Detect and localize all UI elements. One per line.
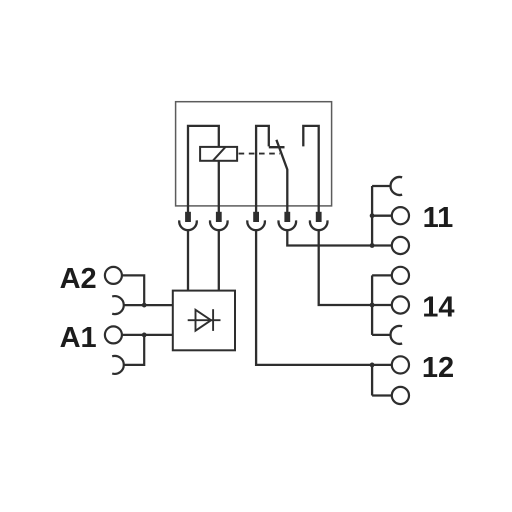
relay coil K1	[200, 147, 237, 161]
terminal 11 clamp arc stub	[372, 185, 390, 187]
plug-in terminal 2 pin	[216, 212, 222, 222]
terminal 12 screw circle b	[392, 387, 409, 404]
terminal 11 clamp arc	[391, 177, 403, 195]
wire terminal3 to terminal 12	[256, 230, 372, 365]
wire A2 arc to box	[124, 304, 173, 306]
terminal 1 socket	[179, 220, 197, 230]
junction A1	[142, 333, 147, 338]
wire terminal5 to terminal 14	[319, 230, 372, 305]
terminal 11 screw stub b	[372, 244, 392, 246]
terminal A1 clamp arc	[112, 356, 124, 374]
svg-text:11: 11	[423, 202, 454, 234]
terminal 12 screw stub a	[372, 364, 392, 366]
coil loop conductor	[188, 126, 219, 212]
wire terminal4 to terminal 11	[287, 230, 372, 245]
protection diode V1	[188, 309, 221, 331]
plug-in terminal 4 pin	[284, 212, 290, 222]
terminal 14 clamp arc	[391, 326, 403, 344]
wire terminal1 to input box	[187, 230, 189, 290]
coil-contact dashed actuation link	[239, 153, 280, 155]
relay module outline	[176, 102, 332, 206]
terminal A2 clamp arc	[112, 296, 124, 314]
terminal 11 screw circle b	[392, 237, 409, 254]
svg-text:14: 14	[422, 291, 454, 323]
terminal 11 bus	[371, 186, 373, 246]
svg-text:A2: A2	[60, 263, 97, 295]
terminal 14 screw stub a	[372, 274, 392, 276]
terminal 14 screw circle b	[392, 296, 409, 313]
junction 12	[370, 363, 375, 368]
terminal 14 screw circle a	[392, 267, 409, 284]
terminal 14 screw stub b	[372, 304, 392, 306]
wire A1 arc to junction	[124, 335, 144, 365]
wire terminal2 to input box	[218, 230, 220, 290]
terminal 2 socket	[210, 220, 228, 230]
contact lever (moving contact)	[276, 140, 287, 212]
input circuit box	[173, 291, 235, 351]
terminal A1 screw circle	[105, 326, 122, 343]
terminal 5 socket	[310, 220, 328, 230]
junction A2	[142, 303, 147, 308]
wire A2 circle to junction	[122, 275, 144, 305]
terminal 14 clamp arc stub	[372, 334, 390, 336]
svg-text:12: 12	[422, 352, 454, 384]
contact fixed side (NC stop)	[256, 126, 284, 212]
terminal 3 socket	[247, 220, 265, 230]
terminal 11 screw circle a	[392, 207, 409, 224]
junction 11a	[370, 213, 375, 218]
svg-text:A1: A1	[60, 322, 97, 354]
terminal 12 screw circle a	[392, 356, 409, 373]
plug-in terminal 3 pin	[253, 212, 259, 222]
plug-in terminal 1 pin	[185, 212, 191, 222]
wire A1 circle to box	[122, 334, 173, 336]
terminal 11 screw stub a	[372, 215, 392, 217]
terminal 4 socket	[279, 220, 297, 230]
plug-in terminal 5 pin	[316, 212, 322, 222]
terminal 12 screw stub b	[372, 394, 392, 396]
junction 11b	[370, 243, 375, 248]
junction 14	[370, 303, 375, 308]
terminal A2 screw circle	[105, 267, 122, 284]
NO contact hook	[303, 126, 318, 212]
terminal 14 bus	[371, 275, 373, 335]
terminal 12 bus	[371, 365, 373, 396]
